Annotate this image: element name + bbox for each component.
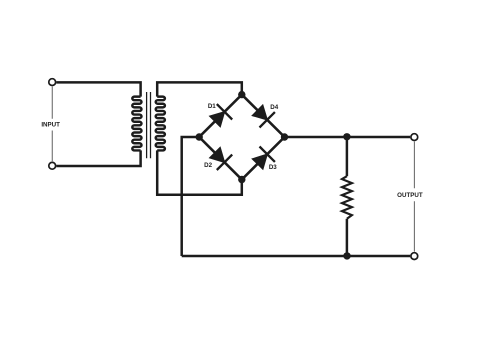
svg-text:D1: D1 — [208, 103, 216, 110]
node right junction — [281, 133, 288, 140]
diode D3 — [252, 147, 275, 170]
wire bottom rail to output bottom — [182, 255, 411, 258]
terminal output bottom — [411, 253, 418, 260]
input terminal link line — [51, 87, 53, 162]
node top junction — [238, 91, 245, 98]
terminal input bottom — [49, 162, 56, 169]
diode D2 — [210, 147, 233, 170]
terminal output top — [411, 134, 418, 141]
wire resistor bottom lead — [346, 219, 349, 256]
node bottom junction — [238, 176, 245, 183]
diode D1 — [210, 104, 233, 127]
wire input top to transformer primary top — [56, 82, 140, 96]
wire transformer secondary bottom to bridge bottom node — [157, 150, 242, 194]
terminal input top — [49, 79, 56, 86]
resistor R1 — [342, 176, 352, 219]
transformer core — [147, 92, 151, 158]
wire transformer primary bottom to input bottom — [56, 150, 140, 166]
svg-text:INPUT: INPUT — [41, 122, 60, 129]
svg-text:D3: D3 — [269, 164, 277, 171]
wire bridge right node to output top — [285, 136, 411, 139]
diode D4 — [252, 105, 275, 128]
node resistor top junction — [343, 133, 350, 140]
transformer primary winding L1 — [132, 97, 141, 151]
svg-text:D2: D2 — [204, 162, 212, 169]
node left junction — [196, 133, 203, 140]
wire transformer secondary top to bridge top node — [157, 82, 242, 96]
output terminal link line — [413, 142, 415, 252]
transformer secondary winding L2 — [156, 97, 165, 151]
wire resistor top lead — [346, 137, 349, 176]
bridge diamond wires — [199, 95, 284, 180]
svg-text:D4: D4 — [270, 104, 278, 111]
svg-text:OUTPUT: OUTPUT — [397, 192, 423, 199]
node resistor bottom junction — [343, 252, 350, 259]
wire bridge left node to bottom rail — [182, 137, 200, 256]
